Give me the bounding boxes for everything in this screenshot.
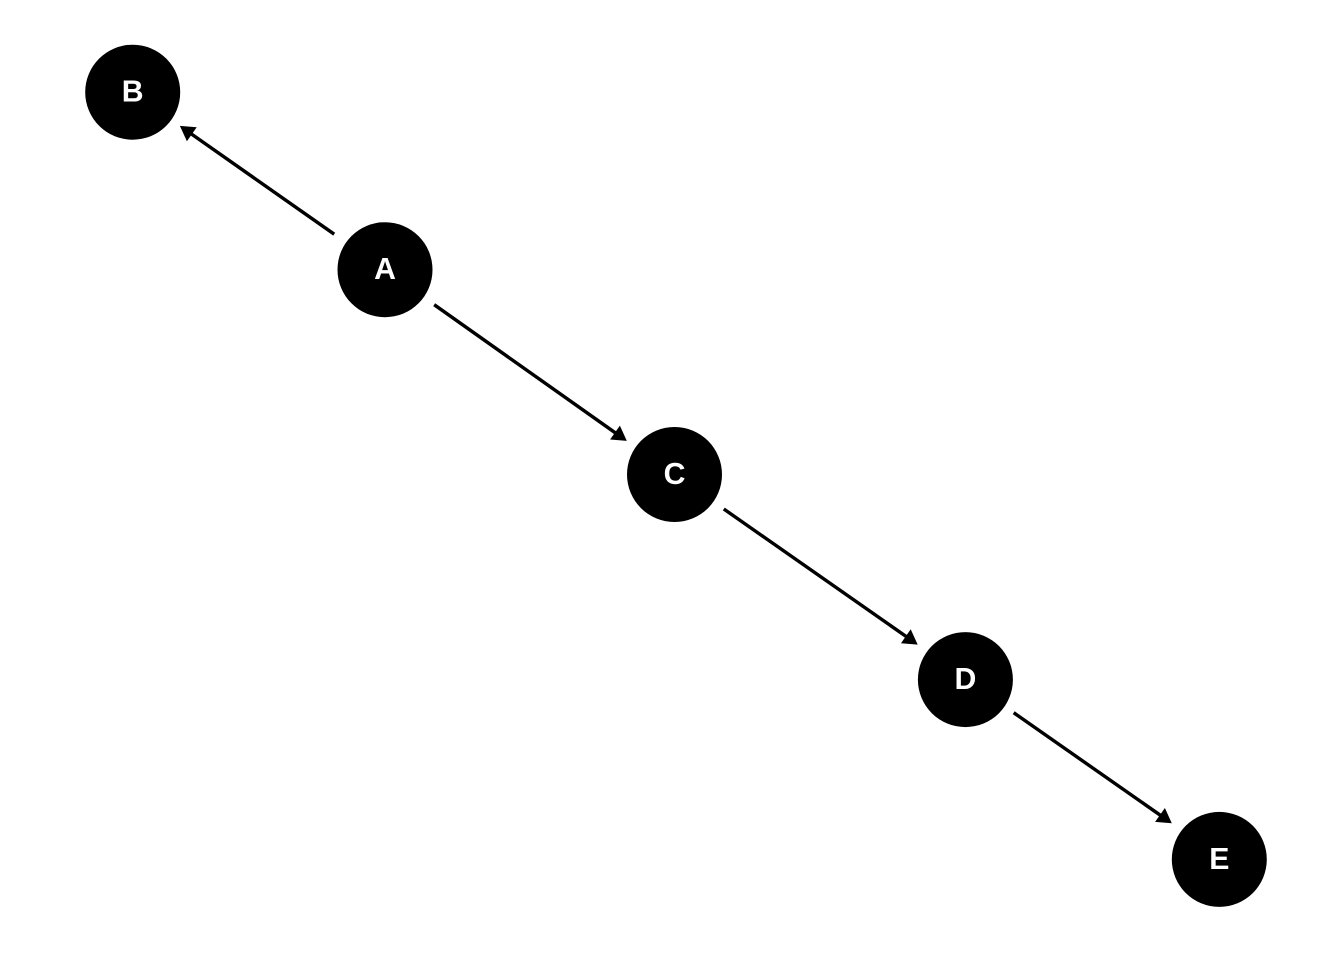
svg-text:E: E bbox=[1209, 843, 1229, 876]
svg-text:B: B bbox=[122, 76, 144, 109]
arrowhead at E bbox=[1155, 808, 1172, 823]
arrowhead at C bbox=[610, 426, 627, 441]
svg-text:D: D bbox=[954, 663, 976, 696]
svg-text:C: C bbox=[664, 458, 686, 491]
svg-text:A: A bbox=[374, 253, 396, 286]
wire D to E bbox=[1014, 713, 1162, 817]
wire A to C bbox=[434, 305, 617, 434]
arrowhead at D bbox=[901, 629, 918, 644]
node E bbox=[1172, 812, 1267, 907]
wire C to D bbox=[724, 509, 908, 638]
node B bbox=[85, 45, 180, 140]
wire A to B bbox=[190, 133, 334, 234]
node D bbox=[918, 632, 1013, 727]
arrowhead at B bbox=[180, 126, 197, 141]
node C bbox=[627, 427, 722, 522]
node A bbox=[338, 222, 433, 317]
